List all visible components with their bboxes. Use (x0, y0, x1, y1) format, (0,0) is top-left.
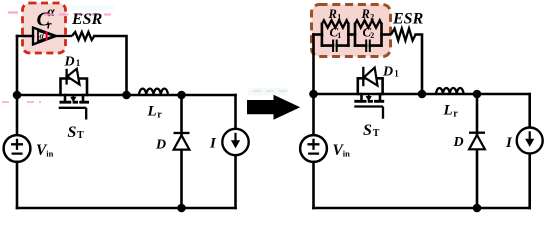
fractional-order capacitor Cr (inner triangle) (38, 31, 54, 41)
svg-text:1: 1 (394, 69, 399, 79)
resistor ESR (right) (391, 29, 416, 41)
node C dot (diode branch / main wire) (177, 91, 186, 100)
svg-text:1: 1 (337, 12, 341, 21)
MOSFET ST (left): channel contact bars (60, 101, 90, 104)
artifact pink dashes near left node (2, 101, 41, 103)
bottom rail (right) (314, 207, 530, 210)
bottom rail (left) (17, 207, 236, 210)
body diode loop (right) (358, 78, 383, 94)
resistor ESR (left) (72, 32, 94, 40)
diode D (right): cathode bar (469, 132, 485, 134)
svg-text:S: S (363, 122, 372, 139)
inductor Lr (left) (139, 89, 168, 95)
wire capacitor to ESR (56, 35, 72, 37)
svg-text:L: L (443, 103, 453, 119)
RC block 1: left vertical (321, 24, 324, 46)
arrow between circuits (248, 88, 288, 96)
entry wire from rail into RC network (314, 33, 323, 36)
artifact pink dashed line over box (44, 13, 111, 15)
MOSFET ST (right): drain/source stubs (362, 94, 381, 99)
svg-text:r: r (453, 109, 458, 120)
wire between RC blocks (348, 33, 355, 36)
MOSFET ST (right): body arrow (368, 95, 370, 98)
node D dot (diode branch / bottom rail) (177, 204, 186, 213)
svg-text:1: 1 (76, 58, 81, 68)
voltage source Vin (right) (300, 135, 327, 162)
diode D branch wire (left) (180, 95, 183, 208)
RC block 2: right vertical (380, 24, 383, 46)
RC block 2: bottom with capacitor C2 (355, 44, 382, 47)
main horizontal wire (left circuit) (17, 94, 236, 97)
wire ESR to node B (94, 36, 126, 95)
diode D1 (left): cathode bar (65, 69, 67, 85)
svg-text:S: S (68, 124, 77, 141)
main horizontal wire (right circuit) (314, 93, 530, 96)
svg-text:L: L (147, 104, 157, 120)
diode D branch wire (right) (476, 94, 479, 208)
svg-text:1: 1 (337, 31, 341, 40)
svg-text:α: α (40, 32, 45, 41)
svg-text:ESR: ESR (392, 10, 424, 27)
svg-text:D: D (64, 55, 75, 70)
diode D (left): cathode bar (174, 132, 190, 134)
svg-text:I: I (505, 135, 513, 151)
svg-text:D: D (382, 65, 393, 80)
diode D (left): triangle (174, 135, 190, 149)
dashed highlight box (right) (312, 5, 391, 57)
node B dot (ESR branch / main wire) (122, 91, 131, 100)
node dots (right) (309, 90, 318, 99)
diode D1 (left): triangle (67, 69, 79, 85)
artifact pink dashes above arrow (253, 90, 292, 92)
RC block 1: bottom with capacitor C1 (322, 44, 349, 47)
MOSFET ST (right): gate bar and gate lead (354, 107, 383, 119)
body diode loop (left) (61, 79, 88, 96)
RC block 2: left vertical (354, 24, 357, 46)
diode D1 (right): triangle (364, 68, 378, 86)
wire from left rail into fractional capacitor (17, 35, 33, 38)
MOSFET ST (left): drain/source stubs (65, 95, 83, 100)
left rail upper segment (16, 36, 19, 136)
artifact pink dashed line top (66, 5, 114, 11)
voltage source Vin (left) (4, 135, 31, 162)
svg-text:R: R (361, 7, 370, 21)
fractional-order capacitor Cr (outer triangle) (33, 28, 56, 45)
MOSFET ST (left): body arrow (72, 96, 74, 99)
svg-text:r: r (47, 19, 52, 31)
MOSFET ST (left): gate bar and gate lead (59, 108, 86, 120)
inductor Lr (right) (436, 88, 464, 94)
svg-text:T: T (77, 130, 84, 141)
current source I (left) (222, 129, 248, 155)
svg-text:I: I (209, 136, 217, 152)
svg-text:2: 2 (370, 12, 374, 21)
svg-text:in: in (343, 149, 350, 159)
svg-text:R: R (328, 7, 337, 21)
capacitor C1 plates (333, 40, 337, 53)
dashed highlight box (left) (23, 3, 66, 53)
svg-text:D: D (453, 135, 464, 150)
svg-text:r: r (157, 110, 162, 121)
capacitor C2 plates (366, 40, 370, 53)
resistor R1 (322, 20, 348, 27)
left rail lower segment (16, 162, 19, 208)
svg-text:D: D (155, 138, 166, 153)
diode D1 (right): cathode bar (362, 67, 364, 86)
svg-text:in: in (46, 149, 53, 159)
svg-text:ESR: ESR (71, 11, 103, 28)
RC block 1: right vertical (347, 24, 350, 46)
current source I branch (left) (234, 95, 237, 208)
MOSFET ST (right): channel contact bars (354, 100, 384, 103)
resistor R2 (355, 20, 381, 27)
diode D (right): triangle (469, 135, 485, 149)
wire ESR to node (right) (416, 35, 422, 95)
exit wire to ESR (382, 33, 391, 36)
current source I (right) (517, 128, 543, 154)
svg-text:2: 2 (370, 31, 374, 40)
node A dot (left rail / main wire) (13, 91, 22, 100)
red mark inside capacitor (46, 32, 48, 41)
current source I branch (right) (528, 94, 531, 208)
svg-text:T: T (373, 128, 380, 139)
right circuit left rail upper segment (312, 35, 315, 137)
right circuit left rail lower segment (312, 162, 315, 208)
svg-text:α: α (47, 4, 55, 19)
